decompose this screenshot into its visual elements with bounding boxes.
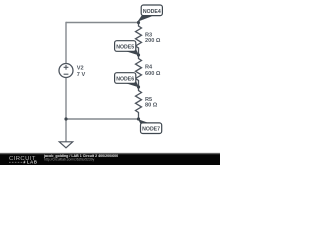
wire ground stub <box>65 119 67 142</box>
node NODE5 flag <box>115 41 139 56</box>
svg-text:7 V: 7 V <box>77 72 86 78</box>
svg-text:R4: R4 <box>145 65 153 71</box>
svg-text:NODE6: NODE6 <box>116 77 134 83</box>
voltage source V2 <box>59 64 73 78</box>
label R5 value <box>145 97 158 109</box>
svg-text:80 Ω: 80 Ω <box>145 103 158 109</box>
junction node A top-right <box>137 21 140 24</box>
wire bottom horizontal <box>66 118 139 120</box>
footer CircuitLab logo dashes <box>9 161 23 163</box>
node NODE6 flag <box>115 73 139 88</box>
svg-text:NODE4: NODE4 <box>143 9 161 15</box>
wire top horizontal <box>66 22 139 24</box>
node NODE4 flag <box>137 5 162 22</box>
svg-text:NODE7: NODE7 <box>142 127 160 133</box>
svg-text:LAB: LAB <box>27 160 38 165</box>
ground <box>59 142 72 148</box>
footer CircuitLab logo bolt <box>23 160 26 164</box>
label V2 value <box>77 65 86 78</box>
label R4 value <box>145 65 161 77</box>
junction node C mid-right R4-R5 <box>137 85 140 88</box>
label R3 value <box>145 32 161 44</box>
svg-text:NODE5: NODE5 <box>116 45 134 51</box>
svg-text:600 Ω: 600 Ω <box>145 71 161 77</box>
wire left vertical upper <box>65 22 67 64</box>
footer bar <box>0 153 220 165</box>
svg-text:V2: V2 <box>77 65 84 71</box>
junction node E bottom-left <box>64 117 67 120</box>
resistor R3 <box>136 23 142 56</box>
junction node D bottom-right <box>137 117 140 120</box>
resistor R4 <box>136 55 142 87</box>
svg-text:http://circuitlab.com/c/62fax5: http://circuitlab.com/c/62fax5239y <box>44 158 95 162</box>
resistor R5 <box>136 87 142 119</box>
wire left vertical lower <box>65 77 67 119</box>
junction node B mid-right R3-R4 <box>137 53 140 56</box>
svg-text:200 Ω: 200 Ω <box>145 38 161 44</box>
node NODE7 flag <box>138 119 162 133</box>
